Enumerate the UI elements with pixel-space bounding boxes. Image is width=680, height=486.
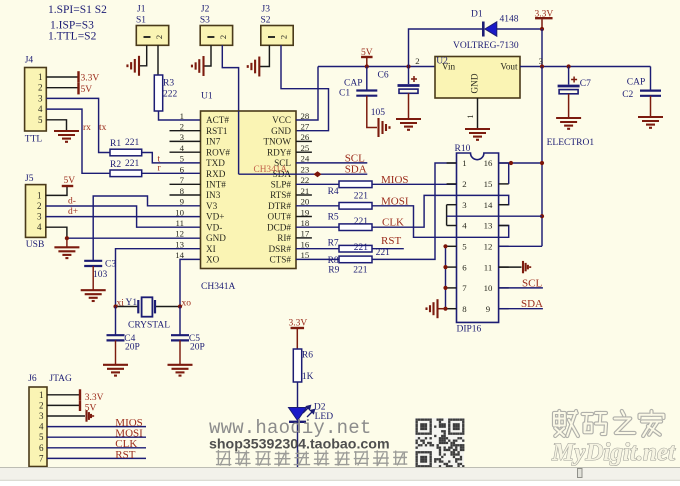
svg-text:13: 13	[484, 221, 493, 231]
svg-text:C2: C2	[622, 90, 633, 100]
svg-text:15: 15	[484, 179, 493, 189]
svg-text:3: 3	[37, 212, 42, 222]
svg-text:10: 10	[484, 283, 493, 293]
watermark digit brand	[554, 411, 664, 436]
wire J5 pin4 to GND net	[46, 227, 67, 238]
wire J6 pin3 to ground	[47, 415, 85, 417]
svg-text:4: 4	[39, 422, 44, 432]
svg-text:14: 14	[175, 250, 184, 260]
svg-text:TXD: TXD	[206, 158, 225, 168]
svg-text:105: 105	[371, 108, 386, 118]
power 5V at J5	[62, 185, 74, 187]
wire J4 pin2 to 5V	[46, 87, 77, 89]
svg-text:12: 12	[175, 229, 184, 239]
svg-text:12: 12	[484, 242, 493, 252]
svg-text:D2: D2	[314, 403, 326, 413]
ground at C2	[638, 117, 663, 128]
svg-text:DIP16: DIP16	[457, 325, 482, 335]
wire C4 to ground	[115, 340, 117, 364]
ground at C3	[81, 290, 106, 301]
wire U1 XI to crystal	[116, 249, 201, 307]
svg-text:14: 14	[484, 200, 493, 210]
svg-text:Y1: Y1	[126, 298, 138, 308]
wire J1 left pin to ground	[140, 45, 147, 66]
wire J3 right pin to U1 pin27	[281, 45, 329, 130]
wire J6 pin5 MOSI	[47, 436, 146, 438]
svg-text:3.3V: 3.3V	[81, 74, 100, 84]
ground at C1	[379, 118, 390, 137]
resistor R7 (CLK)	[296, 226, 339, 228]
svg-text:6: 6	[462, 262, 467, 272]
svg-text:3.3V: 3.3V	[85, 393, 104, 403]
svg-text:SLP#: SLP#	[271, 180, 292, 190]
svg-text:1: 1	[180, 111, 184, 121]
svg-text:5: 5	[38, 115, 43, 125]
capacitor C4	[107, 335, 125, 340]
svg-text:RXD: RXD	[206, 169, 226, 179]
power 5V at rail	[361, 56, 373, 58]
svg-text:10: 10	[175, 207, 184, 217]
svg-text:V3: V3	[206, 201, 218, 211]
power 3.3V at J6	[79, 389, 81, 400]
svg-text:J2: J2	[201, 5, 210, 15]
svg-text:R2: R2	[110, 160, 121, 170]
svg-text:5: 5	[180, 154, 185, 164]
junction riser crossing	[540, 214, 544, 218]
wire crystal right	[155, 306, 180, 308]
wire J4 pin3 to R1 (tx)	[46, 98, 110, 152]
wire C5 to ground	[179, 340, 181, 364]
svg-text:S3: S3	[200, 15, 210, 25]
junction Vout/3.3V riser	[540, 64, 544, 68]
ground at J6 pin3	[87, 410, 94, 421]
svg-text:3: 3	[539, 56, 544, 66]
svg-text:tx: tx	[99, 123, 107, 133]
svg-text:R8: R8	[328, 256, 339, 266]
bracket pins 3-4	[446, 205, 448, 226]
ground at C4	[103, 365, 128, 376]
wire R10 pin16 to 3.3V riser	[499, 162, 542, 164]
svg-text:7: 7	[39, 453, 44, 463]
svg-text:6: 6	[39, 443, 44, 453]
svg-text:4: 4	[462, 221, 467, 231]
svg-text:1: 1	[462, 158, 466, 168]
svg-text:2: 2	[37, 201, 42, 211]
svg-text:27: 27	[301, 122, 310, 132]
svg-text:GND: GND	[271, 126, 291, 136]
svg-text:VD+: VD+	[206, 212, 224, 222]
svg-text:2: 2	[39, 400, 44, 410]
capacitor C7 electrolytic	[568, 67, 570, 85]
svg-text:1.TTL=S2: 1.TTL=S2	[48, 31, 97, 43]
wire J6 pin4 MIOS	[47, 426, 146, 428]
wire 3.3V crossing to pins 3/4	[447, 215, 542, 217]
wire 3.3V riser to Vout	[541, 29, 543, 67]
svg-text:5: 5	[39, 432, 44, 442]
wire R2 to U1 RXD	[142, 172, 201, 174]
svg-text:2: 2	[154, 35, 164, 39]
junction xi	[113, 304, 117, 308]
wire V3 net to C3	[93, 196, 200, 260]
svg-text:VCC: VCC	[272, 115, 291, 125]
wire 3.3V riser to R10	[541, 67, 543, 247]
wire R9 to R10 pin1	[372, 163, 457, 259]
svg-text:221: 221	[354, 243, 369, 253]
svg-text:9: 9	[486, 304, 491, 314]
svg-text:4148: 4148	[500, 15, 519, 25]
junction riser p16	[540, 161, 544, 165]
wire J2 right pin to SDA	[222, 45, 238, 174]
wire J5 pin3 d+ to U1 VD+	[46, 216, 201, 218]
svg-text:Vin: Vin	[442, 62, 456, 72]
svg-text:16: 16	[484, 158, 493, 168]
power 5V at J4	[77, 83, 79, 95]
svg-text:222: 222	[163, 90, 178, 100]
wire R4 to R10 pin2	[372, 183, 457, 185]
svg-text:IN3: IN3	[206, 190, 221, 200]
junction p7	[443, 286, 447, 290]
wire riser into pin12	[499, 245, 542, 247]
wire J4 pin5 to ground	[46, 120, 66, 131]
wire R7/CLK to R10 pin14	[372, 195, 509, 227]
svg-text:R3: R3	[163, 79, 174, 89]
wire xo to C5	[179, 307, 181, 336]
wire R10 pin10 SCL	[499, 287, 543, 289]
wire J4 pin1 to 3.3V	[46, 76, 77, 78]
svg-text:U1: U1	[201, 92, 213, 102]
ground at U2	[465, 129, 490, 140]
svg-text:S1: S1	[136, 15, 146, 25]
svg-text:xi: xi	[117, 299, 125, 309]
junction p5	[443, 244, 447, 248]
scrollbar thumb	[578, 469, 583, 478]
svg-text:XO: XO	[206, 255, 220, 265]
svg-text:CRYSTAL: CRYSTAL	[128, 321, 170, 331]
svg-text:221: 221	[125, 159, 140, 169]
svg-text:OUT#: OUT#	[268, 212, 292, 222]
ground at R10 p8	[427, 299, 438, 318]
svg-text:2: 2	[415, 56, 419, 66]
wire SDA from U1 pin23	[239, 173, 368, 175]
wire J1 right pin to R3	[157, 45, 159, 75]
svg-text:d-: d-	[68, 197, 76, 207]
junction C7	[567, 64, 571, 68]
svg-text:GND: GND	[206, 233, 226, 243]
junction p16 bracket	[509, 161, 513, 165]
svg-text:J3: J3	[262, 5, 271, 15]
ground at J2	[192, 56, 204, 76]
wire xi to C4	[115, 307, 117, 336]
wire C1 to ground	[367, 96, 377, 128]
svg-text:VOLTREG-7130: VOLTREG-7130	[453, 41, 519, 51]
svg-text:JTAG: JTAG	[49, 374, 72, 384]
ground at J5	[54, 247, 79, 258]
svg-text:13: 13	[175, 240, 184, 250]
svg-text:Vout: Vout	[500, 62, 518, 72]
wire Vout rail	[520, 66, 651, 68]
junction xo	[178, 304, 182, 308]
svg-text:MyDigit.net: MyDigit.net	[551, 439, 676, 466]
svg-text:20P: 20P	[190, 343, 205, 353]
wire R10 pin11 to ground	[499, 266, 522, 268]
wire R6 to D2	[297, 382, 299, 408]
watermark QR code	[415, 418, 464, 467]
wire 5V rail (Vin)	[318, 66, 435, 68]
svg-text:R9: R9	[328, 266, 339, 276]
U2 GND pin1 to ground	[477, 98, 479, 129]
svg-text:J6: J6	[28, 374, 37, 384]
wire J6 pin2 to 5V	[47, 404, 79, 406]
watermark chinese scan text	[216, 451, 407, 466]
svg-text:9: 9	[180, 197, 185, 207]
power 3.3V at R6	[291, 327, 305, 329]
wire J3 left pin to ground	[260, 45, 270, 66]
wire SCL from U1 pin24	[296, 162, 367, 164]
red marker on SDA	[314, 171, 322, 177]
svg-text:1: 1	[39, 390, 44, 400]
svg-text:2: 2	[38, 83, 43, 93]
svg-text:8: 8	[462, 304, 467, 314]
junction p6	[443, 265, 447, 269]
ground at J1	[127, 56, 139, 76]
ground at J3	[248, 57, 260, 77]
svg-text:RI#: RI#	[277, 233, 291, 243]
svg-text:5V: 5V	[361, 48, 373, 58]
svg-text:3: 3	[38, 93, 43, 103]
svg-text:ROV#: ROV#	[206, 147, 230, 157]
svg-text:R5: R5	[328, 213, 339, 223]
svg-text:1K: 1K	[302, 372, 314, 382]
wire J2 left pin to ground	[204, 45, 211, 66]
svg-text:RST1: RST1	[206, 126, 228, 136]
wire crystal left	[116, 306, 139, 308]
bottom strip	[0, 468, 680, 482]
svg-text:2: 2	[462, 179, 466, 189]
wire C3 to ground	[92, 266, 94, 290]
svg-text:DTR#: DTR#	[268, 201, 291, 211]
resistor R6	[293, 349, 301, 382]
svg-text:2: 2	[278, 35, 288, 39]
svg-text:J1: J1	[137, 5, 146, 15]
svg-text:R7: R7	[328, 239, 339, 249]
svg-text:C3: C3	[105, 260, 116, 270]
wire R3 to U1 pin1	[159, 111, 201, 120]
svg-text:103: 103	[93, 270, 108, 280]
svg-text:SDA: SDA	[345, 164, 367, 176]
svg-text:R1: R1	[110, 139, 121, 149]
svg-text:SCL: SCL	[522, 278, 542, 290]
power 5V at J6	[79, 400, 81, 411]
svg-text:6: 6	[180, 164, 185, 174]
wire U1 VCC to 5V rail	[296, 67, 318, 121]
resistor R5 (MOSI)	[296, 205, 339, 207]
svg-text:221: 221	[353, 266, 368, 276]
capacitor C6 electrolytic	[408, 67, 410, 85]
svg-text:SDA: SDA	[521, 298, 543, 310]
junction p8	[443, 307, 447, 311]
capacitor C3	[84, 261, 102, 266]
svg-text:IN7: IN7	[206, 137, 221, 147]
wire J5 pin2 d- to U1 VD-	[46, 206, 201, 227]
svg-text:DCD#: DCD#	[267, 222, 291, 232]
ground at J4	[54, 131, 79, 142]
svg-text:221: 221	[354, 192, 369, 202]
svg-text:CAP: CAP	[627, 78, 645, 88]
wire C2 to ground	[650, 96, 652, 117]
svg-text:C6: C6	[378, 71, 389, 81]
svg-text:3.3V: 3.3V	[535, 10, 554, 20]
junction 5V/C1	[365, 64, 369, 68]
wire J4 pin4 to R2 (rx)	[46, 109, 110, 173]
wire C6 to ground	[408, 93, 410, 118]
svg-text:1: 1	[37, 190, 42, 200]
junction C6	[406, 64, 410, 68]
svg-text:C7: C7	[580, 79, 591, 89]
wire J6 pin7 RST	[47, 457, 146, 459]
svg-text:R4: R4	[328, 187, 339, 197]
svg-text:USB: USB	[26, 240, 44, 250]
svg-text:CTS#: CTS#	[270, 255, 292, 265]
svg-text:5V: 5V	[81, 85, 93, 95]
svg-text:ACT#: ACT#	[206, 115, 229, 125]
resistor R4 (MIOS)	[296, 183, 339, 185]
resistor R3	[154, 75, 162, 111]
svg-text:11: 11	[176, 218, 184, 228]
svg-text:RTS#: RTS#	[270, 190, 291, 200]
svg-text:C1: C1	[339, 88, 350, 98]
svg-text:1.SPI=S1 S2: 1.SPI=S1 S2	[48, 4, 107, 16]
wire GND to U1 pin12	[67, 237, 201, 239]
wire D2 to bottom	[297, 422, 299, 467]
ground at C5	[168, 365, 193, 376]
power 3.3V top right	[535, 17, 553, 19]
svg-text:CAP: CAP	[344, 79, 362, 89]
svg-text:XI: XI	[206, 244, 216, 254]
wire p8 to ground	[438, 308, 447, 310]
svg-text:J4: J4	[25, 56, 34, 66]
wire R1 to U1 TXD	[142, 153, 201, 163]
wire R8 RST stub	[372, 248, 404, 250]
resistor R8 (RST)	[296, 248, 339, 250]
svg-text:INT#: INT#	[206, 180, 226, 190]
ground at R10 p11	[523, 261, 530, 273]
svg-text:1: 1	[465, 114, 475, 118]
svg-text:TNOW: TNOW	[263, 137, 291, 147]
wire J5 pin1 to 5V	[46, 187, 67, 196]
svg-text:VD-: VD-	[206, 222, 222, 232]
svg-text:RST: RST	[381, 235, 401, 247]
svg-text:11: 11	[484, 262, 492, 272]
wire U1 XO to crystal	[180, 259, 201, 306]
junction at J5 ground	[65, 236, 69, 240]
ground at C6	[396, 119, 421, 130]
wire SDA vertical through U1	[238, 111, 240, 174]
svg-text:2: 2	[218, 35, 228, 39]
svg-text:3: 3	[39, 411, 44, 421]
ground at C7	[556, 118, 581, 129]
wire C6 junction up to D1	[409, 29, 483, 67]
svg-text:S2: S2	[261, 15, 271, 25]
svg-text:RDY#: RDY#	[267, 147, 291, 157]
svg-text:GND: GND	[470, 73, 480, 93]
svg-text:7: 7	[462, 283, 467, 293]
svg-text:221: 221	[376, 248, 391, 258]
svg-text:ELECTRO1: ELECTRO1	[547, 138, 595, 148]
wire stem to USB ground	[66, 238, 68, 247]
svg-text:DSR#: DSR#	[269, 244, 292, 254]
wire J6 pin1 to 3.3V	[47, 394, 79, 396]
power 3.3V at J4	[77, 71, 79, 83]
capacitor C5	[171, 335, 189, 340]
svg-text:shop35392304.taobao.com: shop35392304.taobao.com	[209, 437, 390, 453]
resistor R9	[296, 258, 339, 260]
bracket pins 16-15	[508, 163, 510, 184]
svg-text:4: 4	[37, 222, 42, 232]
svg-text:221: 221	[125, 138, 140, 148]
svg-text:3.3V: 3.3V	[289, 319, 308, 329]
wire D1 to 3.3V	[497, 28, 542, 30]
svg-text:xo: xo	[182, 299, 192, 309]
svg-text:23: 23	[301, 164, 310, 174]
svg-text:CH341A: CH341A	[201, 282, 235, 292]
wire C7 to ground	[568, 94, 570, 118]
svg-text:d+: d+	[68, 207, 78, 217]
svg-text:20P: 20P	[125, 343, 140, 353]
svg-text:1: 1	[38, 72, 43, 82]
svg-text:4: 4	[38, 104, 43, 114]
wire R10 pins 5-8 common	[445, 246, 447, 308]
wire J6 pin6 CLK	[47, 447, 146, 449]
svg-text:TTL: TTL	[25, 135, 43, 145]
svg-text:J5: J5	[25, 174, 34, 184]
svg-text:RST: RST	[115, 449, 135, 461]
wire R5/MOSI to R10 pin13	[372, 206, 509, 238]
wire R10 pin9 SDA	[499, 308, 543, 310]
junction D1/3.3V	[540, 27, 544, 31]
svg-text:5V: 5V	[64, 176, 76, 186]
svg-text:3: 3	[462, 200, 467, 210]
svg-text:R6: R6	[302, 351, 313, 361]
svg-text:rx: rx	[83, 123, 91, 133]
svg-text:5: 5	[462, 242, 467, 252]
svg-text:D1: D1	[471, 10, 483, 20]
